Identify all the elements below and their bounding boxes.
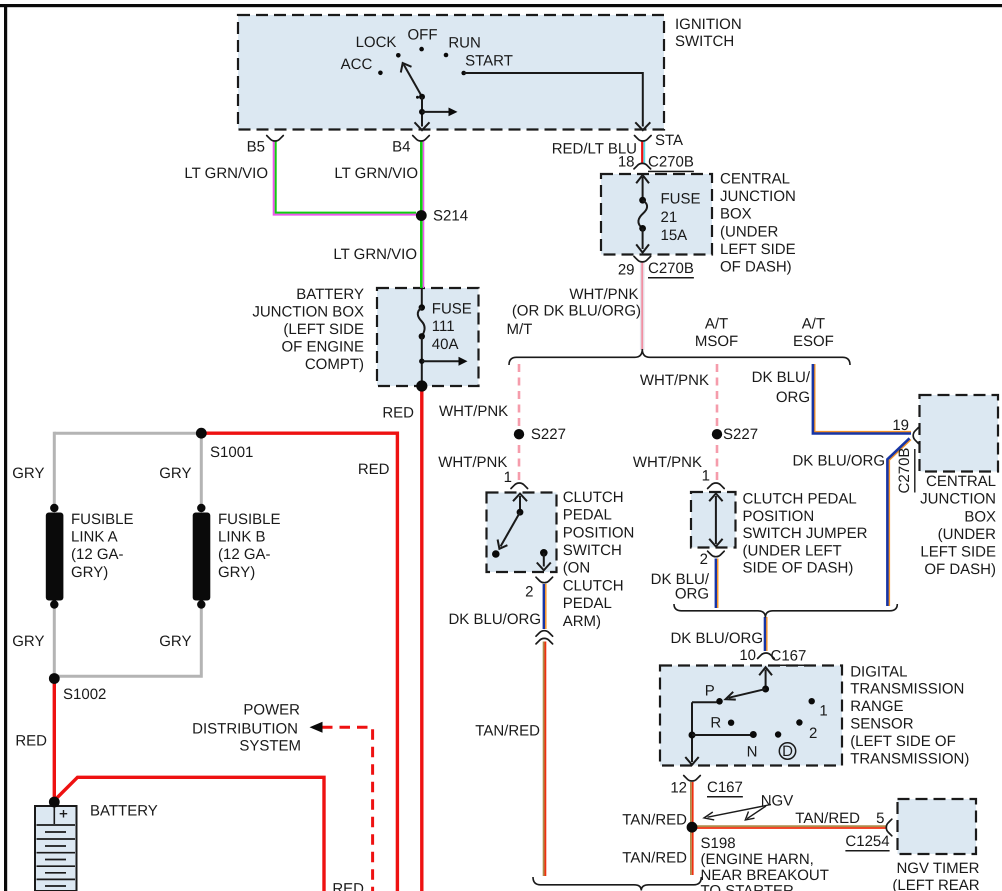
svg-text:RED: RED <box>332 881 364 891</box>
wire GRY top rail S1001 <box>54 432 201 435</box>
svg-text:P: P <box>705 683 715 700</box>
splice S1002 <box>49 673 60 684</box>
DTR junction dot <box>689 732 696 739</box>
svg-text:40A: 40A <box>432 336 459 353</box>
wire WHT/PNK from C270B pin 29 to brace <box>640 263 645 351</box>
fusible link B body <box>193 504 211 609</box>
svg-text:18: 18 <box>618 154 635 171</box>
svg-text:WHT/PNK: WHT/PNK <box>633 454 702 471</box>
svg-text:(LEFT REAR: (LEFT REAR <box>892 877 979 891</box>
svg-text:2: 2 <box>525 584 533 601</box>
svg-text:LEFT SIDE: LEFT SIDE <box>920 544 996 561</box>
svg-text:FUSIBLE: FUSIBLE <box>71 511 134 528</box>
svg-text:ORG: ORG <box>675 586 709 603</box>
svg-text:CENTRAL: CENTRAL <box>926 473 996 490</box>
fusible link A body <box>46 504 64 609</box>
wire RED battery feed to right <box>54 777 324 891</box>
svg-text:FUSE: FUSE <box>432 301 472 318</box>
svg-text:POSITION: POSITION <box>563 524 635 541</box>
svg-text:ORG: ORG <box>776 389 810 406</box>
svg-text:12: 12 <box>670 779 687 796</box>
svg-text:D: D <box>782 743 793 760</box>
page frame left border <box>4 4 7 891</box>
clutch pedal position switch jumper box <box>691 492 736 548</box>
svg-text:WHT/PNK: WHT/PNK <box>640 372 709 389</box>
svg-text:S214: S214 <box>433 208 468 225</box>
battery plates <box>37 825 76 886</box>
svg-text:CENTRAL: CENTRAL <box>720 171 790 188</box>
svg-text:S1002: S1002 <box>63 686 106 703</box>
svg-text:DIGITAL: DIGITAL <box>850 663 907 680</box>
clutch pedal position switch box <box>487 493 557 573</box>
svg-text:19: 19 <box>892 417 909 434</box>
svg-text:TAN/RED: TAN/RED <box>795 810 860 827</box>
splice S227 (M/T) <box>514 429 524 439</box>
DTR contact dot R <box>728 720 734 726</box>
svg-text:CLUTCH: CLUTCH <box>563 489 624 506</box>
wire GRY left down to fusible link A <box>53 432 56 508</box>
wire RED S1001 to right then down <box>201 433 397 891</box>
svg-text:TO STARTER: TO STARTER <box>701 883 795 891</box>
splice S227 (A/T MSOF) <box>712 429 722 439</box>
svg-text:C167: C167 <box>707 779 743 796</box>
power distribution system arrow <box>310 722 323 733</box>
connector pin 1 (jumper) <box>708 483 725 489</box>
page frame top border <box>0 4 1002 7</box>
STA exit open arrowhead <box>635 122 650 130</box>
ignition switch position dot RUN <box>444 53 449 58</box>
svg-text:TAN/RED: TAN/RED <box>622 849 687 866</box>
wire GRY fusible link B to S1002 rail <box>56 604 201 676</box>
svg-text:(UNDER LEFT: (UNDER LEFT <box>743 542 842 559</box>
svg-text:SENSOR: SENSOR <box>850 716 914 733</box>
svg-text:SWITCH: SWITCH <box>563 542 622 559</box>
svg-text:LEFT SIDE: LEFT SIDE <box>720 241 796 258</box>
svg-text:1: 1 <box>819 703 827 720</box>
svg-text:S227: S227 <box>531 426 566 443</box>
svg-text:DISTRIBUTION: DISTRIBUTION <box>192 721 298 738</box>
svg-text:FUSE: FUSE <box>661 191 701 208</box>
svg-text:(12 GA-: (12 GA- <box>218 546 271 563</box>
wire RED dashed power distribution system <box>322 727 373 891</box>
svg-text:111: 111 <box>432 318 455 335</box>
battery plus sign <box>60 810 67 818</box>
svg-text:(UNDER: (UNDER <box>720 223 778 240</box>
svg-text:COMPT): COMPT) <box>305 356 364 373</box>
svg-text:RED: RED <box>358 461 390 478</box>
ignition switch position dot START <box>461 71 466 76</box>
connector C270B pin 18 <box>634 163 651 169</box>
svg-text:WHT/PNK: WHT/PNK <box>569 286 638 303</box>
svg-text:ESOF: ESOF <box>793 333 834 350</box>
svg-text:5: 5 <box>876 810 884 827</box>
svg-text:A/T: A/T <box>802 316 825 333</box>
svg-text:(ENGINE HARN,: (ENGINE HARN, <box>701 851 814 868</box>
svg-text:LT GRN/VIO: LT GRN/VIO <box>334 165 418 182</box>
svg-text:(ON: (ON <box>563 560 591 577</box>
battery junction box (fuse 111) <box>377 288 479 386</box>
clutch pedal position switch jumper internals <box>709 494 722 547</box>
connector C1254 pin 5 <box>886 819 892 836</box>
wire DK BLU/ORG from pin 19 down to brace <box>889 440 911 606</box>
wire LT GRN/VIO from B5 to S214 <box>274 141 416 215</box>
wire TAN/RED from S198 to C1254 pin 5 <box>692 825 886 827</box>
svg-text:SWITCH JUMPER: SWITCH JUMPER <box>743 525 868 542</box>
svg-text:B4: B4 <box>392 139 410 156</box>
DTR contact dot D <box>775 731 781 737</box>
svg-text:LOCK: LOCK <box>356 34 397 51</box>
svg-text:OF ENGINE: OF ENGINE <box>281 338 364 355</box>
connector STA <box>635 136 652 142</box>
svg-text:2: 2 <box>809 725 817 742</box>
wire DK BLU/ORG clutch switch output <box>545 584 547 629</box>
svg-text:S1001: S1001 <box>210 444 253 461</box>
svg-text:1: 1 <box>702 468 710 485</box>
svg-text:NGV: NGV <box>761 792 794 809</box>
svg-text:C1254: C1254 <box>845 833 889 850</box>
svg-text:TRANSMISSION): TRANSMISSION) <box>850 750 969 767</box>
svg-text:RED: RED <box>15 733 47 750</box>
svg-text:BOX: BOX <box>964 508 996 525</box>
wire DK BLU/ORG A/T ESOF branch to C270B pin 19 <box>815 364 911 432</box>
svg-text:FUSIBLE: FUSIBLE <box>218 511 281 528</box>
svg-text:SYSTEM: SYSTEM <box>239 738 301 755</box>
connector pin 2 (clutch switch) <box>536 577 553 583</box>
fuse 111 40A symbol <box>416 289 467 392</box>
connector C167 pin 10 <box>758 653 775 659</box>
splice S198 <box>687 822 698 833</box>
ignition switch box <box>238 15 664 130</box>
DTR contact dot 1 <box>809 698 815 704</box>
svg-text:(12 GA-: (12 GA- <box>71 546 124 563</box>
ignition switch lever with arrowhead toward LOCK <box>404 65 422 97</box>
svg-text:LT GRN/VIO: LT GRN/VIO <box>184 165 268 182</box>
svg-text:GRY): GRY) <box>71 564 108 581</box>
svg-text:21: 21 <box>661 209 678 226</box>
svg-text:CLUTCH PEDAL: CLUTCH PEDAL <box>743 491 857 508</box>
svg-text:GRY): GRY) <box>218 564 255 581</box>
wire GRY right S1001 to fusible link B <box>200 433 203 508</box>
svg-text:GRY: GRY <box>159 633 191 650</box>
brace TAN/RED merge bottom <box>533 877 701 891</box>
svg-text:S227: S227 <box>723 426 758 443</box>
connector B5 <box>267 136 284 142</box>
svg-text:TAN/RED: TAN/RED <box>622 811 687 828</box>
svg-text:ACC: ACC <box>341 56 373 73</box>
wire WHT/PNK dashed M/T branch to S227 <box>518 364 521 480</box>
connector C167 pin 12 <box>684 776 701 782</box>
svg-text:C270B: C270B <box>896 448 913 494</box>
ignition switch position dot LOCK <box>396 53 401 58</box>
connector pin 2 (jumper) <box>708 551 725 557</box>
svg-text:WHT/PNK: WHT/PNK <box>439 403 508 420</box>
wire LT GRN/VIO B4 through S214 to battery junction box <box>423 141 425 288</box>
svg-text:SIDE OF DASH): SIDE OF DASH) <box>743 560 854 577</box>
svg-text:R: R <box>710 715 721 732</box>
svg-text:DK BLU/ORG: DK BLU/ORG <box>448 611 541 628</box>
svg-text:JUNCTION BOX: JUNCTION BOX <box>252 303 364 320</box>
svg-text:IGNITION: IGNITION <box>675 16 742 33</box>
svg-text:BATTERY: BATTERY <box>90 803 158 820</box>
svg-text:N: N <box>747 744 758 761</box>
svg-text:JUNCTION: JUNCTION <box>720 188 796 205</box>
svg-text:C270B: C270B <box>648 260 694 277</box>
svg-text:DK BLU/ORG: DK BLU/ORG <box>670 630 763 647</box>
ignition switch internals <box>378 47 650 130</box>
svg-text:CLUTCH: CLUTCH <box>563 577 624 594</box>
svg-text:WHT/PNK: WHT/PNK <box>438 454 507 471</box>
wire TAN/RED long run to bottom brace <box>543 642 545 877</box>
svg-text:SWITCH: SWITCH <box>675 33 734 50</box>
NGV timer box <box>898 799 977 854</box>
svg-text:(UNDER: (UNDER <box>938 526 996 543</box>
connector B4 <box>413 136 430 142</box>
DTR contact dot 2 <box>796 719 802 725</box>
DTR circled D <box>779 743 795 759</box>
svg-text:(OR DK BLU/ORG): (OR DK BLU/ORG) <box>512 302 641 319</box>
svg-text:BATTERY: BATTERY <box>296 286 364 303</box>
svg-text:LINK A: LINK A <box>71 529 118 546</box>
svg-text:29: 29 <box>618 261 635 278</box>
svg-text:DK BLU/ORG: DK BLU/ORG <box>792 453 885 470</box>
DTR contact dot N <box>750 731 757 738</box>
svg-text:(LEFT SIDE: (LEFT SIDE <box>283 321 364 338</box>
wire DK BLU/ORG from brace to C167 pin 10 <box>766 617 768 651</box>
battery positive terminal dot <box>49 797 60 808</box>
svg-text:2: 2 <box>700 551 708 568</box>
svg-text:STA: STA <box>655 132 683 149</box>
fuse 21 15A symbol <box>636 175 649 253</box>
central junction box C270B (fuse 21) <box>601 174 712 255</box>
svg-text:PEDAL: PEDAL <box>563 507 612 524</box>
svg-text:GRY: GRY <box>159 465 191 482</box>
clutch pedal position switch internals <box>492 494 551 571</box>
svg-text:C167: C167 <box>771 648 807 665</box>
svg-text:OF DASH): OF DASH) <box>924 561 996 578</box>
digital transmission range sensor box <box>660 666 842 766</box>
svg-text:PEDAL: PEDAL <box>563 595 612 612</box>
in-line splice symbol (DK BLU/ORG to TAN/RED) <box>536 631 553 637</box>
wire DK BLU/ORG jumper output to brace <box>717 559 719 609</box>
svg-text:POWER: POWER <box>243 702 300 719</box>
svg-text:RED: RED <box>382 405 414 422</box>
splice S1001 <box>196 428 207 439</box>
ignition switch position dot ACC <box>378 71 383 76</box>
svg-text:S198: S198 <box>701 835 736 852</box>
svg-text:B5: B5 <box>247 139 265 156</box>
svg-text:TRANSMISSION: TRANSMISSION <box>850 681 964 698</box>
digital transmission range sensor internals <box>685 667 815 765</box>
wire START to STA corner <box>464 73 643 127</box>
svg-text:A/T: A/T <box>705 316 728 333</box>
svg-text:BOX: BOX <box>720 206 752 223</box>
ignition switch wire pivot to B4 exit <box>421 97 423 127</box>
ignition switch B4 exit open arrowhead <box>415 122 430 130</box>
central junction box C270B (pin 19) <box>920 395 999 472</box>
svg-text:JUNCTION: JUNCTION <box>920 491 996 508</box>
svg-text:GRY: GRY <box>12 633 44 650</box>
svg-text:M/T: M/T <box>506 321 532 338</box>
svg-text:NGV TIMER: NGV TIMER <box>896 860 979 877</box>
NGV callout arrows <box>704 805 771 821</box>
svg-text:10: 10 <box>739 647 756 664</box>
svg-text:GRY: GRY <box>12 465 44 482</box>
svg-text:MSOF: MSOF <box>695 333 738 350</box>
svg-text:RANGE: RANGE <box>850 698 903 715</box>
svg-text:LINK B: LINK B <box>218 529 266 546</box>
svg-text:LT GRN/VIO: LT GRN/VIO <box>333 246 417 263</box>
svg-text:OFF: OFF <box>408 27 438 44</box>
svg-text:ARM): ARM) <box>563 613 601 630</box>
brace M/T A/T split <box>509 349 850 365</box>
DTR contact dot P <box>716 698 723 705</box>
svg-text:DK BLU/: DK BLU/ <box>752 369 811 386</box>
svg-text:START: START <box>465 53 513 70</box>
wire GRY fusible link A to S1002 <box>53 604 56 678</box>
svg-text:OF DASH): OF DASH) <box>720 259 792 276</box>
brace DK BLU/ORG merge <box>674 604 897 618</box>
wire TAN/RED from C167 pin 12 to S198 to bottom <box>690 782 692 875</box>
battery symbol <box>35 797 77 891</box>
ignition switch position dot OFF <box>419 47 424 52</box>
svg-text:1: 1 <box>504 469 512 486</box>
connector C270B pin 29 <box>634 256 651 262</box>
ignition switch feed arrow right <box>422 111 449 113</box>
connector pin 1 (clutch switch) <box>511 483 528 489</box>
svg-text:15A: 15A <box>661 227 688 244</box>
svg-text:(LEFT SIDE OF: (LEFT SIDE OF <box>850 733 956 750</box>
wire RED/LT BLU from STA to C270B pin 18 <box>643 141 645 163</box>
wire WHT/PNK dashed A/T MSOF branch to S227 <box>716 364 719 480</box>
svg-text:C270B: C270B <box>648 154 694 171</box>
svg-text:TAN/RED: TAN/RED <box>475 723 540 740</box>
connector C270B pin 19 <box>913 428 918 444</box>
fuse 111 output junction dot <box>416 380 427 391</box>
splice S214 <box>416 210 427 221</box>
wire RED fuse 111 output down <box>420 386 423 891</box>
DTR exit open arrowhead <box>685 757 698 765</box>
wire RED S1002 to battery <box>53 678 56 802</box>
svg-text:RUN: RUN <box>448 35 481 52</box>
svg-text:POSITION: POSITION <box>743 508 815 525</box>
